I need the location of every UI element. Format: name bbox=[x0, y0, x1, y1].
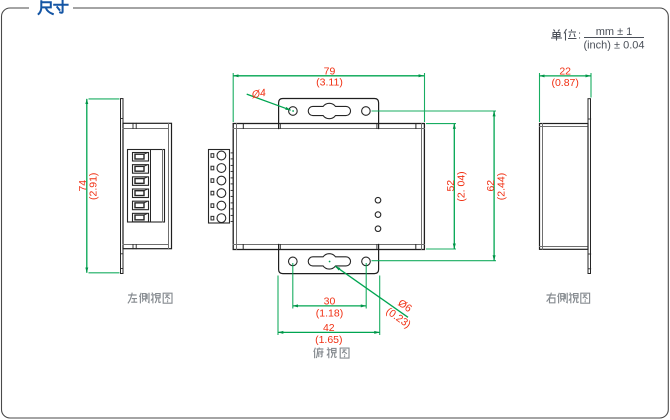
right flange tick bottom2 bbox=[588, 268, 591, 270]
right view inner left line bbox=[542, 124, 544, 250]
left view body inner bottom line bbox=[123, 244, 169, 246]
bottom band tick right bbox=[415, 245, 417, 250]
terminal block top view rows bbox=[211, 151, 226, 222]
bottom bracket hole left (Ø4) bbox=[289, 257, 298, 266]
flange tick bottom2 bbox=[121, 268, 123, 270]
dimension 79 line bbox=[233, 75, 424, 77]
dimension texts bbox=[77, 65, 579, 345]
title 尺寸 bbox=[39, 1, 68, 15]
dimension 42 line bbox=[278, 331, 380, 333]
bottom band tick bbox=[242, 245, 244, 250]
left view body inner top line bbox=[123, 128, 169, 130]
dimension 22 line bbox=[539, 75, 591, 77]
label 俯视图 bbox=[314, 348, 349, 359]
svg-text::: : bbox=[578, 30, 581, 42]
right view inner bottom line bbox=[540, 246, 589, 248]
svg-text:42: 42 bbox=[323, 322, 335, 334]
dimension 52 line bbox=[453, 124, 455, 249]
terminals (6 screw clamps) bbox=[133, 153, 149, 222]
right flange tick top bbox=[588, 118, 591, 120]
svg-text:79: 79 bbox=[324, 65, 336, 77]
right view flange bbox=[588, 99, 591, 274]
body inner left line bbox=[236, 124, 238, 250]
left view body outline bbox=[123, 123, 172, 248]
top mounting bracket bbox=[279, 99, 379, 129]
svg-text:(1.18): (1.18) bbox=[316, 307, 343, 319]
寸 bbox=[54, 1, 67, 13]
flange tick bottom bbox=[121, 253, 123, 255]
body inner top line bbox=[233, 128, 424, 130]
尺 bbox=[39, 1, 53, 14]
svg-text:Ø4: Ø4 bbox=[250, 87, 267, 101]
right view inner top line bbox=[540, 126, 589, 128]
svg-text:(inch) ± 0.04: (inch) ± 0.04 bbox=[583, 40, 644, 52]
leader Ø6 center dot bbox=[329, 261, 331, 263]
right flange tick bottom bbox=[588, 253, 591, 255]
terminal block side view outline bbox=[128, 150, 165, 223]
fraction bar bbox=[584, 37, 644, 39]
位 bbox=[564, 29, 577, 41]
bottom mounting bracket bbox=[279, 245, 379, 274]
label 左侧视图 bbox=[128, 293, 172, 304]
svg-text:(2. 04): (2. 04) bbox=[455, 171, 467, 201]
LED hole 1 bbox=[375, 197, 381, 203]
svg-text:(2.44): (2.44) bbox=[495, 173, 507, 200]
body inner right line bbox=[421, 124, 423, 250]
svg-text:22: 22 bbox=[559, 66, 571, 78]
dimension 62 line bbox=[493, 111, 495, 261]
top bracket hole right (Ø4) bbox=[362, 107, 371, 116]
units note bbox=[551, 26, 645, 52]
flange tick top bbox=[121, 118, 123, 120]
top band tick bbox=[415, 124, 417, 129]
LED hole 3 bbox=[375, 226, 381, 232]
dimension 30 line bbox=[293, 305, 366, 307]
bottom bracket keyhole slot bbox=[308, 254, 350, 269]
top bracket keyhole slot bbox=[308, 103, 350, 118]
label 右侧视图 bbox=[547, 293, 590, 304]
leader Ø4 center dot bbox=[292, 110, 294, 112]
left view body inner right line bbox=[168, 123, 170, 248]
单 bbox=[551, 30, 562, 41]
svg-text:(2.91): (2.91) bbox=[88, 173, 100, 200]
top bracket hole left (Ø4) bbox=[289, 107, 298, 116]
bottom bracket hole right (Ø4) bbox=[362, 257, 371, 266]
right view body outline bbox=[540, 124, 589, 250]
left view flange bbox=[121, 99, 124, 274]
terminal teeth dashes bbox=[231, 153, 233, 222]
top view body outline bbox=[233, 124, 424, 250]
terminal block divider lines bbox=[150, 150, 152, 223]
svg-text:mm ± 1: mm ± 1 bbox=[596, 26, 633, 38]
svg-text:(0.87): (0.87) bbox=[551, 77, 578, 89]
dimension 74 line bbox=[86, 99, 88, 273]
body inner bottom line bbox=[233, 244, 424, 246]
svg-text:30: 30 bbox=[324, 296, 336, 308]
top seam ticks bbox=[132, 123, 134, 128]
LED hole 2 bbox=[375, 212, 381, 218]
leader Ø4 bbox=[247, 94, 291, 110]
svg-text:(3.11): (3.11) bbox=[316, 77, 343, 89]
单位 glyphs bbox=[551, 29, 577, 41]
terminal block top view outline bbox=[209, 150, 230, 224]
top band tick left bbox=[242, 124, 244, 129]
leader Ø6 bbox=[335, 266, 408, 317]
extension lines bbox=[89, 73, 592, 335]
svg-text:(1.65): (1.65) bbox=[315, 334, 342, 346]
bottom seam ticks bbox=[132, 245, 134, 249]
